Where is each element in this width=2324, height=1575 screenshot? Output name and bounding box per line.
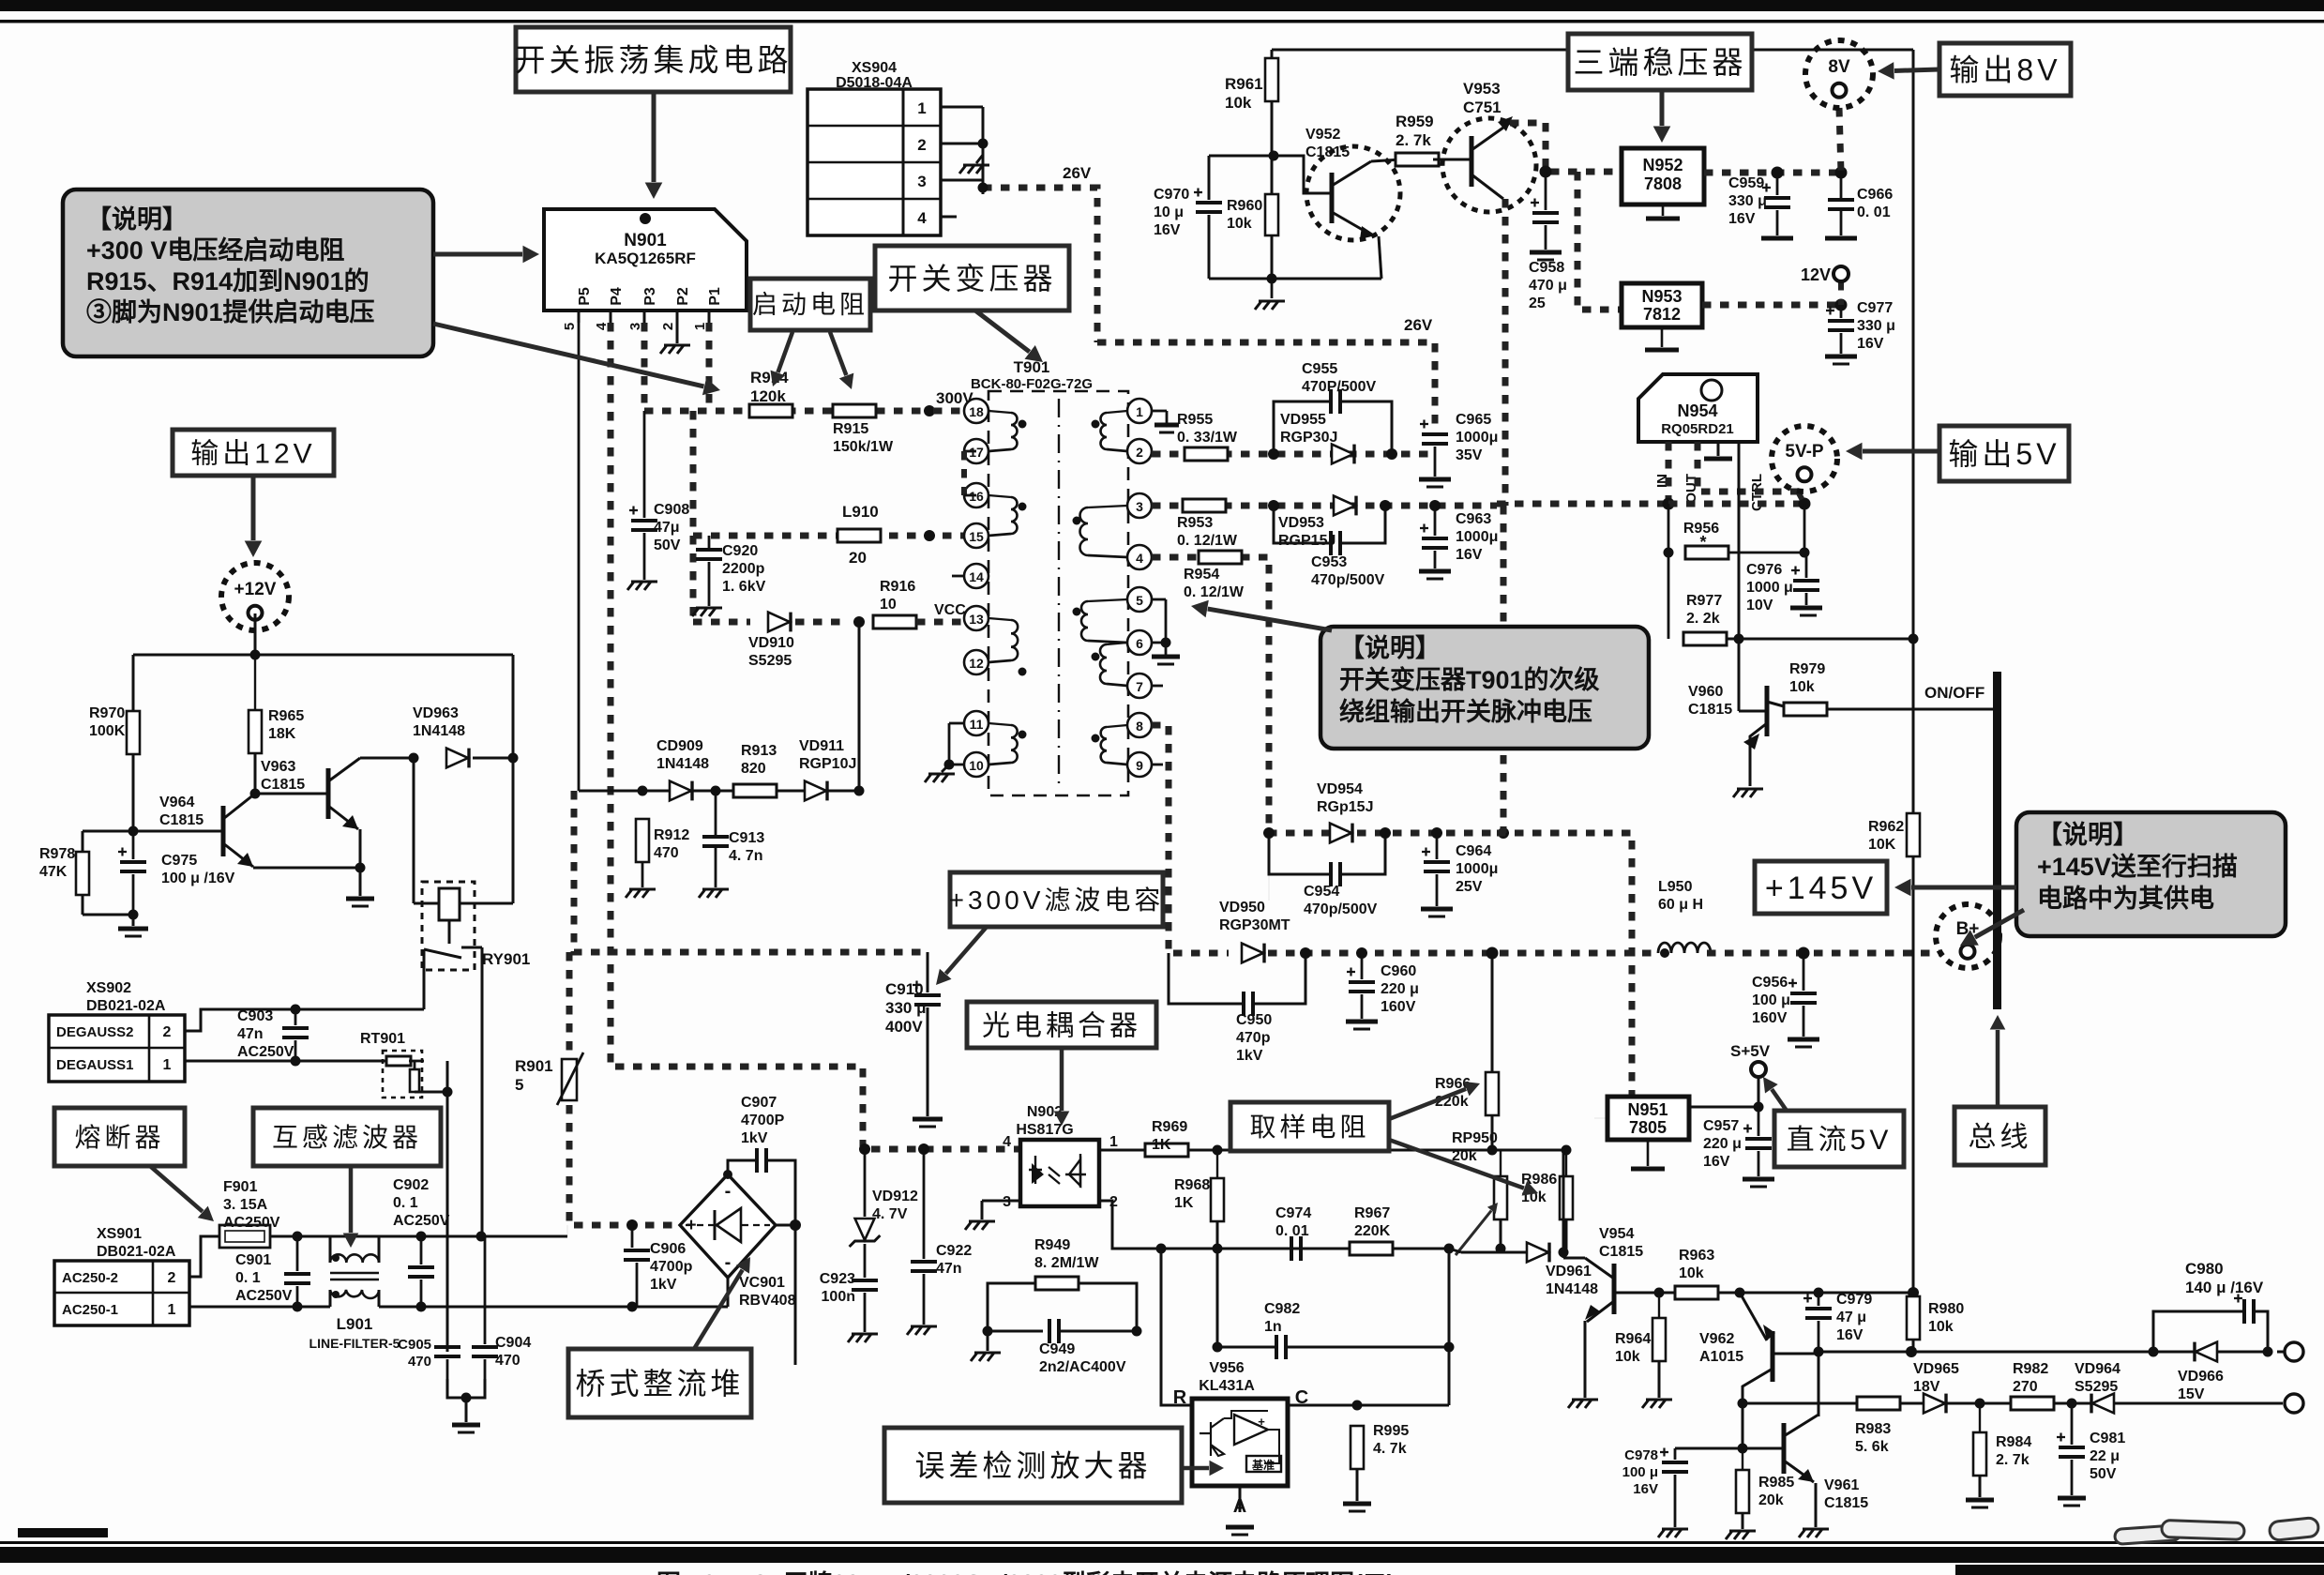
node VD961 out bbox=[1559, 1248, 1569, 1258]
svg-text:C954: C954 bbox=[1304, 884, 1339, 900]
svg-text:RBV408: RBV408 bbox=[739, 1293, 796, 1309]
N901 pin1 index dot bbox=[640, 213, 651, 224]
svg-text:1: 1 bbox=[1109, 1134, 1118, 1150]
svg-text:100 μ: 100 μ bbox=[1622, 1464, 1658, 1480]
junction bbox=[416, 1232, 427, 1242]
arrow to N952 bbox=[1660, 90, 1665, 126]
fuse F901 3.15A bbox=[219, 1225, 270, 1248]
capacitor C920 2200p bbox=[696, 548, 722, 552]
svg-text:XS901: XS901 bbox=[97, 1226, 142, 1242]
junction bbox=[355, 863, 366, 873]
junction bbox=[2263, 1347, 2273, 1357]
wire bbox=[776, 1224, 795, 1227]
wire XS904 pin3 bbox=[941, 179, 983, 182]
svg-text:C949: C949 bbox=[1039, 1341, 1075, 1357]
svg-text:10: 10 bbox=[880, 597, 897, 613]
arrow to bus bar bbox=[1996, 1030, 2000, 1107]
arrow to S+5V bbox=[1772, 1089, 1787, 1111]
node C922 bbox=[918, 1143, 929, 1155]
node C966 bbox=[1835, 167, 1848, 179]
wire bbox=[1436, 874, 1439, 906]
svg-text:P4: P4 bbox=[609, 287, 625, 306]
capacitor C957 220u/16V bbox=[1745, 1137, 1772, 1141]
svg-text:470 μ: 470 μ bbox=[1529, 278, 1567, 294]
svg-text:270: 270 bbox=[2013, 1379, 2038, 1395]
resistor R995 4.7k bbox=[1351, 1426, 1364, 1469]
svg-text:820: 820 bbox=[741, 761, 766, 777]
svg-text:R954: R954 bbox=[1184, 567, 1219, 583]
svg-text:【说明】: 【说明】 bbox=[86, 205, 188, 234]
wire degauss1 row bbox=[185, 1060, 386, 1063]
wire bbox=[409, 1060, 424, 1063]
wire bbox=[982, 107, 985, 194]
wire sampling row y1226 bbox=[1188, 1149, 1563, 1152]
wire bbox=[424, 949, 461, 958]
ground V952 rail bbox=[1255, 301, 1285, 310]
arrow note2 to pin5 bbox=[1208, 609, 1332, 630]
wire V960 base stub bbox=[1739, 710, 1767, 713]
wire bbox=[378, 1236, 381, 1263]
note box 3 (gray) bbox=[2016, 812, 2286, 936]
svg-text:1K: 1K bbox=[1174, 1195, 1194, 1211]
svg-text:VC901: VC901 bbox=[739, 1275, 785, 1291]
wire bbox=[1268, 877, 1270, 901]
capacitor C958 470u/25 bbox=[1532, 211, 1559, 215]
resistor R967 220K bbox=[1350, 1242, 1393, 1255]
T901 pin 1 bbox=[1127, 399, 1152, 423]
wire C904 column bbox=[484, 1236, 487, 1344]
wire bbox=[988, 449, 1011, 451]
junction bbox=[1092, 420, 1100, 429]
ground V960 bbox=[1733, 789, 1763, 797]
node C963 bbox=[1429, 500, 1441, 511]
svg-text:RY901: RY901 bbox=[482, 950, 530, 968]
capacitor C923 100n bbox=[852, 1279, 878, 1282]
svg-text:R979: R979 bbox=[1789, 661, 1825, 677]
wire bbox=[1840, 333, 1843, 354]
wire V962 emitter diag bbox=[1740, 1293, 1767, 1340]
dotted wire N952 output 8V bbox=[1704, 170, 1841, 176]
node XS904 pin3 bbox=[978, 183, 988, 193]
ground N953 bbox=[1645, 348, 1679, 353]
junction bbox=[1019, 731, 1027, 739]
wire C901 stub bbox=[296, 1236, 299, 1271]
wire XS904 pin2 bbox=[941, 143, 983, 145]
T901 pin 4 bbox=[1127, 545, 1152, 569]
node 300V bbox=[924, 405, 935, 416]
diode VD954 RGp15J bbox=[1330, 824, 1351, 843]
wire V953 emitter diag bbox=[1471, 174, 1503, 199]
wire (dotted) bbox=[1798, 492, 1804, 504]
wire bbox=[1742, 1448, 1743, 1470]
wire C908 stub bbox=[643, 411, 646, 518]
svg-text:15V: 15V bbox=[2178, 1386, 2205, 1402]
wire bbox=[988, 723, 1011, 725]
svg-text:10: 10 bbox=[969, 758, 984, 773]
junction bbox=[1156, 1244, 1167, 1254]
wire C910 stub bbox=[927, 952, 929, 992]
transistor V962 A1015 bbox=[1771, 1331, 1775, 1382]
wire bbox=[1088, 506, 1127, 507]
wire bbox=[988, 618, 1011, 620]
svg-text:1: 1 bbox=[692, 323, 708, 330]
wire bbox=[296, 1286, 299, 1307]
dotted wire B+ rail right bbox=[1707, 950, 1939, 957]
svg-text:330 μ: 330 μ bbox=[1857, 318, 1895, 334]
svg-text:V954: V954 bbox=[1599, 1226, 1634, 1242]
arrow to +12V pad bbox=[251, 476, 256, 540]
svg-text:5: 5 bbox=[1136, 593, 1143, 608]
svg-text:47 μ: 47 μ bbox=[1836, 1310, 1866, 1325]
junction bbox=[1487, 1145, 1498, 1156]
ground R995 bbox=[1343, 1502, 1371, 1507]
junction bbox=[508, 753, 519, 764]
wire pin11 stub bbox=[949, 722, 964, 725]
node S+5V bbox=[1754, 1102, 1764, 1113]
resistor R913 820 bbox=[733, 784, 777, 797]
ground C910 bbox=[913, 1117, 943, 1122]
op IC N901 KA5Q1265RF body bbox=[544, 209, 747, 310]
capacitor C953 470p/500V bbox=[1329, 531, 1333, 555]
T901 pin 8 bbox=[1127, 713, 1152, 737]
svg-text:R912: R912 bbox=[654, 827, 689, 843]
junction bbox=[1738, 1399, 1748, 1409]
wire C913 stub bbox=[715, 791, 717, 835]
junction bbox=[1734, 634, 1744, 644]
callout 光电耦合器 bbox=[967, 1002, 1156, 1048]
wire bbox=[132, 915, 135, 926]
top border bar bbox=[0, 0, 2324, 11]
wire CTRL column bbox=[1738, 442, 1741, 639]
junction bbox=[1132, 1326, 1142, 1337]
svg-text:VD910: VD910 bbox=[748, 635, 794, 651]
svg-text:直流5V: 直流5V bbox=[1787, 1125, 1893, 1156]
capacitor C974 0.01 bbox=[1290, 1236, 1293, 1261]
node C913 bbox=[711, 786, 721, 796]
T901 pin 3 bbox=[1127, 493, 1152, 518]
svg-text:220 μ: 220 μ bbox=[1381, 981, 1419, 997]
junction bbox=[1019, 420, 1027, 429]
wire bbox=[927, 1007, 929, 1116]
dotted wire pin4 to VD954 row bbox=[1152, 557, 1497, 833]
svg-text:18K: 18K bbox=[268, 726, 296, 742]
svg-text:22 μ: 22 μ bbox=[2090, 1448, 2120, 1464]
wire pin1 stub bbox=[1152, 410, 1167, 413]
capacitor C970 10u/16V bbox=[1196, 201, 1222, 204]
svg-text:C955: C955 bbox=[1302, 361, 1337, 377]
wire bbox=[1585, 1258, 1614, 1279]
svg-text:R: R bbox=[1173, 1387, 1187, 1408]
svg-text:VD955: VD955 bbox=[1280, 412, 1326, 428]
resistor R954 0.12/1W bbox=[1199, 551, 1242, 564]
wire bbox=[2071, 1460, 2074, 1495]
svg-text:3: 3 bbox=[627, 323, 643, 330]
wire bbox=[988, 763, 1011, 765]
note box 2 (gray) bbox=[1320, 627, 1649, 749]
capacitor C966 0.01 bbox=[1828, 198, 1854, 202]
svg-text:470p/500V: 470p/500V bbox=[1304, 901, 1378, 917]
wire bbox=[82, 831, 84, 852]
wire bbox=[1254, 953, 1305, 1004]
junction bbox=[2067, 1399, 2077, 1409]
dotted wire VCC row bbox=[693, 619, 750, 626]
T901 pin 14 bbox=[964, 564, 988, 588]
junction bbox=[944, 760, 955, 770]
svg-text:1N4148: 1N4148 bbox=[413, 723, 465, 739]
svg-text:0. 01: 0. 01 bbox=[1275, 1223, 1309, 1239]
junction bbox=[293, 1302, 303, 1312]
svg-text:2n2/AC400V: 2n2/AC400V bbox=[1039, 1359, 1126, 1375]
dotted jog 17-16 bbox=[961, 451, 967, 495]
callout 开关振荡集成电路 bbox=[516, 27, 791, 92]
wire bbox=[1165, 599, 1168, 643]
wire bbox=[1340, 506, 1385, 543]
svg-text:总线: 总线 bbox=[1969, 1122, 2032, 1153]
wire bbox=[415, 1091, 447, 1094]
capacitor C922 47n bbox=[911, 1260, 937, 1264]
wire R978 top link bbox=[83, 830, 133, 833]
wire bbox=[1815, 1483, 1818, 1527]
wire bbox=[864, 1244, 867, 1278]
svg-text:120k: 120k bbox=[750, 387, 786, 405]
wire relay coil left bbox=[413, 758, 415, 903]
svg-text:12V: 12V bbox=[1801, 265, 1831, 284]
ground opto pin3 bbox=[965, 1221, 995, 1230]
svg-text:R980: R980 bbox=[1928, 1301, 1964, 1317]
ground C960 bbox=[1346, 1020, 1378, 1024]
svg-text:9: 9 bbox=[1136, 758, 1143, 773]
svg-text:1kV: 1kV bbox=[1236, 1048, 1263, 1064]
svg-text:V953: V953 bbox=[1463, 80, 1501, 98]
wire bbox=[1912, 1294, 1915, 1302]
dotted wire pin2 8V rail bbox=[1152, 451, 1435, 458]
junction bbox=[1019, 503, 1027, 511]
junction bbox=[291, 1056, 301, 1067]
svg-text:C975: C975 bbox=[161, 853, 197, 869]
wiper RP950 bbox=[1456, 1211, 1491, 1255]
capacitor C913 4.7n bbox=[702, 835, 729, 839]
svg-text:C908: C908 bbox=[654, 502, 689, 518]
junction bbox=[1213, 1145, 1223, 1156]
dotted wire L910 row bbox=[693, 533, 976, 539]
wire XS904 pin1 bbox=[941, 106, 983, 109]
arrow note3 to +145V bbox=[1911, 886, 2016, 890]
diode VD964 S5295 bbox=[2092, 1394, 2114, 1414]
node R916 column bbox=[854, 786, 865, 796]
ground pin1 bbox=[1154, 423, 1179, 428]
relay RY901 dashed box bbox=[422, 882, 475, 970]
terminal pad B+ bbox=[1936, 904, 2000, 968]
wire bbox=[987, 1331, 989, 1351]
arrow to T901 bbox=[975, 310, 1030, 352]
svg-text:47n: 47n bbox=[936, 1261, 962, 1277]
svg-text:N901: N901 bbox=[624, 231, 667, 250]
svg-text:2: 2 bbox=[168, 1270, 176, 1286]
junction bbox=[461, 1393, 472, 1403]
capacitor C959 330u/16V bbox=[1764, 196, 1790, 200]
capacitor C949 2n2/AC400V bbox=[1048, 1319, 1051, 1343]
svg-text:5: 5 bbox=[515, 1076, 523, 1094]
capacitor C950 470p/1kV bbox=[1242, 992, 1245, 1016]
svg-text:47K: 47K bbox=[39, 864, 68, 880]
wire bbox=[446, 1359, 449, 1398]
wire C976 stub bbox=[1805, 553, 1808, 578]
wire V953 collector diag bbox=[1471, 123, 1510, 150]
svg-text:RT901: RT901 bbox=[360, 1031, 405, 1047]
ground C922 bbox=[907, 1326, 937, 1335]
svg-text:1: 1 bbox=[917, 99, 926, 117]
wire V960 collector diag bbox=[1767, 702, 1784, 706]
wire bbox=[1742, 1513, 1744, 1529]
ground C963 bbox=[1419, 569, 1451, 574]
svg-text:35V: 35V bbox=[1456, 447, 1483, 463]
wire (dotted) bbox=[916, 619, 976, 626]
svg-text:50V: 50V bbox=[654, 538, 681, 553]
inductor L950 60uH bbox=[1658, 943, 1711, 953]
svg-text:C1815: C1815 bbox=[1688, 702, 1732, 718]
resistor R961 10k bbox=[1265, 58, 1278, 101]
svg-text:470: 470 bbox=[654, 845, 679, 861]
callout 互感滤波器 bbox=[253, 1108, 441, 1166]
wire V952 base path bbox=[1274, 156, 1332, 193]
wire bbox=[641, 818, 643, 819]
svg-text:VD911: VD911 bbox=[799, 738, 844, 754]
svg-text:输出5V: 输出5V bbox=[1948, 437, 2060, 471]
wire C970 bottom bbox=[1208, 215, 1211, 279]
winding 13-12 bbox=[1011, 620, 1018, 660]
wire 12V rail bbox=[133, 654, 513, 657]
capacitor C904 470 bbox=[472, 1345, 498, 1349]
T901 pin 11 bbox=[964, 711, 988, 735]
svg-text:DB021-02A: DB021-02A bbox=[97, 1244, 176, 1260]
winding 6-7 bbox=[1100, 644, 1107, 684]
wire C955 loop right bbox=[1340, 401, 1392, 454]
wire x1545 column bbox=[1448, 1249, 1451, 1405]
diode VD950 RGP30MT bbox=[1242, 944, 1263, 963]
wire bbox=[948, 723, 951, 765]
ground C965 bbox=[1419, 477, 1451, 482]
svg-text:输出8V: 输出8V bbox=[1949, 53, 2060, 87]
node C977 bbox=[1835, 299, 1848, 311]
wire bbox=[1166, 425, 1168, 428]
svg-text:2: 2 bbox=[917, 136, 926, 154]
svg-text:10k: 10k bbox=[1679, 1265, 1704, 1281]
resistor R914 120k bbox=[749, 404, 792, 417]
svg-text:C974: C974 bbox=[1275, 1205, 1311, 1221]
dotted wire P3 down to 300V row bbox=[641, 323, 648, 411]
svg-text:10K: 10K bbox=[1868, 837, 1896, 853]
wire bbox=[1545, 225, 1547, 250]
svg-text:C960: C960 bbox=[1381, 963, 1416, 979]
winding 8-9 bbox=[1101, 727, 1107, 763]
arrow to N901 bbox=[652, 92, 656, 182]
wire C981 stub bbox=[2071, 1403, 2074, 1445]
svg-text:P1: P1 bbox=[707, 287, 723, 306]
svg-text:10k: 10k bbox=[1227, 216, 1252, 232]
svg-text:基准: 基准 bbox=[1251, 1458, 1275, 1472]
svg-text:26V: 26V bbox=[1063, 164, 1092, 182]
junction bbox=[1267, 274, 1277, 284]
svg-text:输出12V: 输出12V bbox=[190, 438, 315, 469]
svg-text:8: 8 bbox=[1136, 719, 1143, 734]
junction bbox=[1660, 948, 1669, 958]
wire V964 emitter bbox=[223, 843, 253, 867]
svg-text:R965: R965 bbox=[268, 708, 304, 724]
svg-text:10k: 10k bbox=[1615, 1349, 1640, 1365]
svg-text:VD961: VD961 bbox=[1546, 1264, 1592, 1280]
svg-text:R962: R962 bbox=[1868, 819, 1904, 835]
callout 启动电阻 bbox=[750, 279, 870, 330]
svg-text:R953: R953 bbox=[1177, 515, 1213, 531]
node VD912 bbox=[859, 1143, 870, 1155]
wire opto pin3 bbox=[982, 1200, 1020, 1203]
svg-text:4: 4 bbox=[594, 322, 610, 330]
node VCC/R916 bbox=[853, 616, 865, 628]
resistor R966 220k bbox=[1486, 1072, 1499, 1115]
wire bbox=[1268, 833, 1270, 877]
arrow to L901 bbox=[349, 1166, 354, 1233]
wire bbox=[988, 411, 1011, 413]
resistor R956 * bbox=[1685, 546, 1728, 559]
svg-text:RGP30MT: RGP30MT bbox=[1219, 917, 1290, 933]
svg-text:C906: C906 bbox=[650, 1241, 686, 1257]
dotted wire x739 link column bbox=[690, 411, 697, 622]
wire N954 gnd stub bbox=[1717, 442, 1720, 456]
svg-text:VD964: VD964 bbox=[2075, 1361, 2120, 1377]
wire V964 collector bbox=[223, 794, 255, 819]
wire ON/OFF to bus bbox=[1827, 708, 1994, 711]
diode VD910 S5295 bbox=[768, 613, 790, 632]
node R961/R960/V952 base bbox=[1269, 151, 1279, 161]
resistor R977 2.2k bbox=[1683, 632, 1727, 645]
wire pin9 stub bbox=[1152, 764, 1163, 766]
wire bbox=[1434, 447, 1437, 477]
svg-text:400V: 400V bbox=[885, 1018, 923, 1036]
svg-text:0. 33/1W: 0. 33/1W bbox=[1177, 430, 1238, 446]
svg-text:8. 2M/1W: 8. 2M/1W bbox=[1034, 1255, 1099, 1271]
wire relay contact down to AC row bbox=[481, 947, 484, 1236]
svg-text:R916: R916 bbox=[880, 579, 915, 595]
svg-text:C902: C902 bbox=[393, 1177, 429, 1193]
svg-text:R913: R913 bbox=[741, 743, 777, 759]
wire bbox=[643, 310, 646, 323]
wire 8V top rail from R961 to right trunk bbox=[1272, 49, 1913, 52]
T901 pin 5 bbox=[1127, 587, 1152, 612]
svg-text:R978: R978 bbox=[39, 846, 75, 862]
transistor V952 dotted circle bbox=[1306, 146, 1400, 240]
wire C980 loop bbox=[2153, 1311, 2244, 1352]
diode VD911 RGP10J bbox=[805, 781, 826, 801]
callout 输出8V bbox=[1939, 43, 2071, 96]
svg-text:50V: 50V bbox=[2090, 1466, 2117, 1482]
svg-text:2200p: 2200p bbox=[722, 561, 765, 577]
svg-text:470: 470 bbox=[495, 1353, 521, 1369]
junction bbox=[1073, 517, 1081, 525]
wire bbox=[610, 310, 612, 323]
ground C905/C904 bbox=[452, 1423, 480, 1428]
wire bbox=[254, 655, 256, 710]
ground pin10 bbox=[925, 774, 955, 782]
thermistor RT901 bbox=[383, 1051, 422, 1098]
wire bbox=[641, 862, 644, 887]
resistor R962 10K bbox=[1907, 813, 1920, 856]
regulator N953 7812 bbox=[1622, 283, 1702, 327]
svg-text:+145V: +145V bbox=[1765, 871, 1877, 906]
svg-text:V956: V956 bbox=[1209, 1360, 1244, 1376]
T901 pin 18 bbox=[964, 399, 988, 423]
svg-text:+145V送至行扫描: +145V送至行扫描 bbox=[2037, 852, 2238, 881]
resistor R953 0.12/1W bbox=[1183, 499, 1226, 512]
